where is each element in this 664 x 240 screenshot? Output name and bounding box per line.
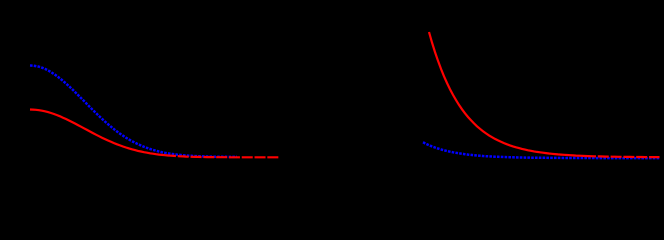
right panel red curve (dashed tail) (585, 156, 660, 157)
left panel red curve (dashed tail) (165, 155, 279, 157)
right panel red curve (solid exponential, steep part) (429, 32, 585, 156)
left panel red curve (solid gaussian, steep part) (30, 110, 165, 156)
left panel blue curve (dotted gaussian) (30, 66, 237, 157)
right panel blue curve (dotted exponential) (423, 142, 660, 158)
